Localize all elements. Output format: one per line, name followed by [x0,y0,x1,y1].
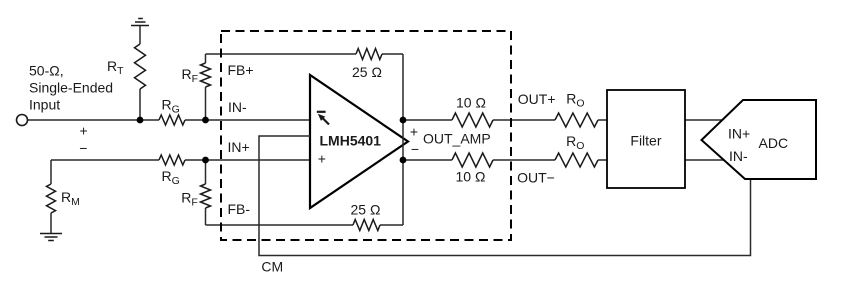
node: R_T / input junction [137,117,144,124]
dashed box around amplifier [221,31,511,240]
svg-text:10 Ω: 10 Ω [456,169,486,185]
svg-text:+: + [318,150,326,166]
op-amp gain arrow symbol [317,112,329,125]
op-amp U1 LMH5401 triangle [310,75,408,208]
resistor R_T [135,44,146,89]
wire: FB- feedback wire [206,224,404,226]
node: OUT- junction [400,157,407,164]
svg-text:FB-: FB- [228,201,251,217]
svg-text:−: − [411,141,419,157]
svg-text:ADC: ADC [759,135,789,151]
resistor 10 ohm top [452,113,493,127]
ADC block [702,100,817,179]
svg-text:+: + [80,123,88,139]
svg-text:IN-: IN- [228,99,247,115]
wire: R_F bottom leads [205,160,207,225]
svg-text:Filter: Filter [630,132,661,148]
svg-text:OUT−: OUT− [517,170,555,186]
ground bottom (below R_M) [40,234,62,241]
svg-text:+: + [410,124,418,140]
wire: R_M column [50,160,52,233]
resistor R_O top [555,113,598,127]
wire: filter to ADC [685,120,728,160]
svg-text:−: − [79,140,87,156]
svg-text:FB+: FB+ [228,62,254,78]
Filter block [607,90,685,188]
svg-text:CM: CM [261,259,283,275]
wire: top rail IN- path [28,26,728,233]
input terminal circle [17,115,28,126]
node: OUT+ junction [400,117,407,124]
wire: output vertical bus [402,54,404,225]
wire: CM net [259,136,751,256]
resistor R_F top [201,63,211,87]
svg-text:IN+: IN+ [728,125,750,141]
node: IN+ junction [202,157,209,164]
svg-text:Input: Input [29,97,60,113]
svg-text:25 Ω: 25 Ω [352,64,382,80]
svg-text:Single-Ended: Single-Ended [29,80,113,96]
svg-text:IN+: IN+ [228,139,250,155]
wire: R_T column [139,26,141,120]
resistor R_O bottom [555,153,598,167]
ground top (inverted, above R_T) [131,19,149,26]
svg-text:OUT+: OUT+ [518,91,556,107]
svg-text:LMH5401: LMH5401 [320,133,382,149]
wire: output bottom from amp to filter [403,159,607,161]
node: IN- junction [202,117,209,124]
resistor R_G bottom [159,155,185,165]
svg-text:25 Ω: 25 Ω [351,202,381,218]
svg-text:OUT_AMP: OUT_AMP [423,130,491,146]
svg-text:IN-: IN- [729,148,748,164]
wire: output top from amp to filter [403,119,607,121]
resistor 25 ohm top [356,49,382,60]
wire: bottom rail IN+ path [51,159,309,161]
resistor R_F bottom [201,184,211,208]
wire: R_F top leads [205,54,207,120]
resistor 25 ohm bottom [353,220,380,231]
svg-text:50-Ω,: 50-Ω, [29,63,64,79]
resistor 10 ohm bottom [452,153,493,167]
wire: FB+ feedback wire [206,53,404,55]
svg-text:10 Ω: 10 Ω [456,95,486,111]
resistor R_M [47,184,56,213]
resistor R_G top [159,115,185,125]
